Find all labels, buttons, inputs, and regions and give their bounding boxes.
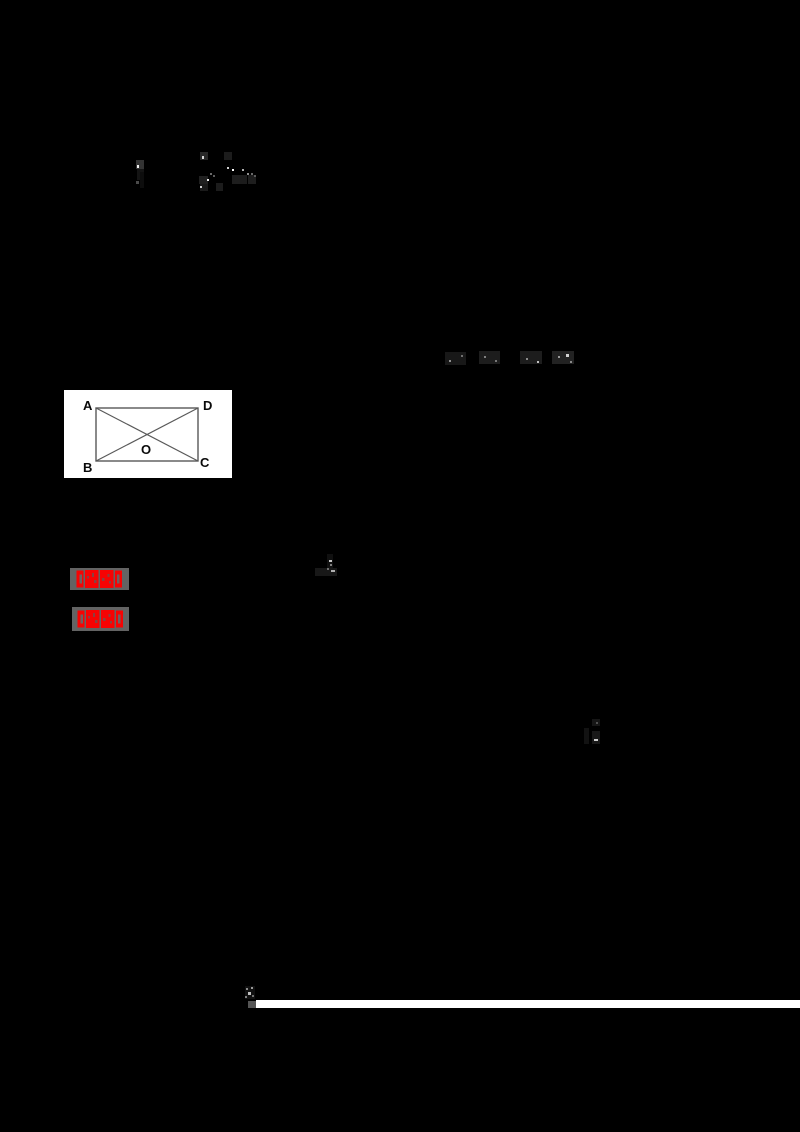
answer tag box 2 (grey box, red CJK label) xyxy=(72,607,129,631)
white panel background xyxy=(64,390,232,478)
footer grey square xyxy=(248,1001,256,1008)
tiny faint fraction mark right of tag box 1 xyxy=(327,554,333,568)
tiny faint fraction mark mid-right xyxy=(592,719,600,726)
faint x mark above footer bar xyxy=(245,986,255,999)
svg-text:C: C xyxy=(200,455,210,470)
diagonal D-B xyxy=(96,408,198,461)
svg-text:A: A xyxy=(83,398,93,413)
geometry diagram panel: rectangle ABCD with diagonals meeting at O xyxy=(64,390,232,478)
faint formula cluster top (sqrt expression) xyxy=(200,152,208,160)
svg-text:O: O xyxy=(141,442,151,457)
footer white bar xyxy=(256,1000,800,1008)
diagonal A-C xyxy=(96,408,198,461)
rectangle ABCD xyxy=(96,408,198,461)
faint formula fragment top-left (1/2 fraction) xyxy=(136,160,144,169)
svg-text:B: B xyxy=(83,460,92,475)
svg-text:D: D xyxy=(203,398,212,413)
faint answer-option text row (30 70 35 55 degrees) xyxy=(445,352,466,365)
answer tag box 1 (grey box, red CJK label) xyxy=(70,568,129,590)
